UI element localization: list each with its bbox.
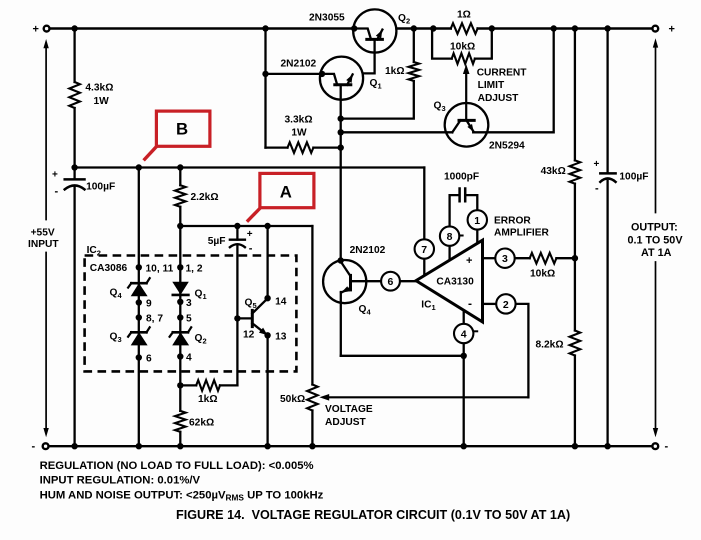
- transistor Q4 emitter: [341, 288, 350, 293]
- input arrow line lower: [45, 253, 47, 429]
- red callout box A: [260, 173, 314, 207]
- junction dot pin4 row: [461, 353, 467, 359]
- arrowhead input up: [43, 39, 48, 48]
- op-amp pin2 stub: [483, 303, 496, 305]
- transistor Q4 collector: [341, 262, 351, 277]
- svg-text:2N5294: 2N5294: [489, 141, 525, 152]
- svg-text:LIMIT: LIMIT: [478, 80, 505, 91]
- svg-text:2N2102: 2N2102: [350, 245, 386, 256]
- wire: A row corner down to 50k: [311, 226, 313, 385]
- zener Q2 (IC2): [173, 331, 188, 334]
- divider column bottom: [574, 356, 576, 447]
- resistor R 3.3k leads: [266, 146, 341, 148]
- resistor R 8.2k body: [570, 331, 581, 356]
- transistor Q3 collector: [452, 120, 460, 132]
- wire: left column bottom: [73, 187, 75, 446]
- divider column middle: [574, 184, 576, 331]
- op-amp pin 6 circle: [381, 272, 400, 291]
- svg-text:HUM AND NOISE OUTPUT: <250µVRM: HUM AND NOISE OUTPUT: <250µVRMS UP TO 10…: [40, 489, 324, 502]
- transistor Q2 2N3055 circle: [353, 9, 396, 52]
- node B row wire: [75, 166, 425, 168]
- svg-text:1000pF: 1000pF: [444, 172, 479, 183]
- op-amp pin3 stub: [483, 257, 495, 259]
- svg-text:A: A: [280, 183, 292, 202]
- transistor Q5 collector: [252, 298, 267, 313]
- svg-text:1: 1: [474, 215, 480, 227]
- svg-text:-: -: [32, 441, 36, 453]
- svg-text:AT 1A: AT 1A: [641, 247, 672, 259]
- input - terminal: [43, 443, 49, 449]
- arrowhead 50k pot wiper: [319, 394, 329, 401]
- wire: Q3 collector row to Q1 base: [341, 131, 453, 133]
- svg-text:1Ω: 1Ω: [457, 10, 471, 21]
- svg-text:ERROR: ERROR: [494, 216, 531, 227]
- svg-text:Q2: Q2: [195, 333, 207, 346]
- red callout line A: [247, 207, 261, 222]
- red callout box B: [156, 111, 210, 146]
- svg-text:+: +: [466, 255, 472, 267]
- capacitor C 100uF output column top: [606, 29, 608, 174]
- svg-text:Q3: Q3: [110, 332, 122, 345]
- svg-text:ADJUST: ADJUST: [325, 417, 367, 428]
- wire: Q3 emitter row to rail: [473, 29, 554, 133]
- pot R 10k loop right: [475, 29, 492, 59]
- junction dot Q4 collector: [338, 257, 344, 263]
- svg-text:100µF: 100µF: [86, 182, 115, 193]
- svg-text:AMPLIFIER: AMPLIFIER: [494, 228, 550, 239]
- wire: 10k to divider node: [556, 257, 575, 259]
- transistor Q4 2N2102 (error amp driver) circle: [323, 260, 366, 303]
- capacitor C 5uF plates: [230, 238, 245, 240]
- junction dots top rail: [71, 25, 77, 31]
- arrowhead 10k pot wiper: [463, 64, 470, 74]
- svg-text:+: +: [33, 24, 39, 36]
- wire: left column x75 top: [73, 29, 75, 83]
- op-amp pin7 stub: [423, 259, 425, 276]
- svg-text:CURRENT: CURRENT: [477, 68, 528, 79]
- resistor R 1k body: [409, 62, 420, 81]
- junction dot 1k row: [177, 382, 183, 388]
- svg-text:1kΩ: 1kΩ: [198, 394, 218, 405]
- svg-text:Q5: Q5: [245, 298, 257, 311]
- arrowhead Q2 emitter: [376, 30, 382, 39]
- op-amp pin 3 circle: [495, 249, 514, 268]
- svg-text:1W: 1W: [291, 128, 307, 139]
- op-amp pin1 stub: [476, 230, 478, 244]
- transistor Q3 emitter: [467, 120, 474, 131]
- svg-text:62kΩ: 62kΩ: [189, 418, 214, 429]
- capacitor C 5uF top lead: [236, 226, 238, 240]
- output - terminal: [652, 443, 658, 449]
- svg-text:-: -: [665, 441, 669, 453]
- transistor Q1 base bar: [335, 83, 351, 86]
- resistor R 1k horizontal body: [196, 380, 220, 391]
- svg-text:IC2: IC2: [87, 245, 101, 258]
- transistor Q1 collector: [322, 74, 337, 85]
- svg-text:10kΩ: 10kΩ: [450, 42, 475, 53]
- svg-text:2N3055: 2N3055: [309, 13, 345, 24]
- transistor Q5 base wire: [237, 317, 251, 319]
- wire: column x180 middle: [179, 207, 181, 411]
- wire: Q5 collector column to A row: [266, 226, 268, 298]
- transistor Q2 base lead down: [353, 41, 375, 74]
- junction dots node A row: [177, 223, 183, 229]
- input arrow line upper: [45, 45, 47, 220]
- svg-text:2N2102: 2N2102: [281, 59, 317, 70]
- svg-text:-: -: [55, 186, 59, 198]
- svg-text:50kΩ: 50kΩ: [280, 394, 305, 405]
- svg-text:10, 11: 10, 11: [146, 264, 174, 275]
- arrowhead Q5 emitter: [259, 328, 268, 336]
- svg-text:+: +: [669, 24, 675, 36]
- divider column 43k/8.2k top: [574, 29, 576, 161]
- junction dots bottom rail: [71, 443, 77, 449]
- resistor R 1ohm body: [451, 23, 478, 34]
- pot 10k wiper arrow line: [465, 70, 467, 120]
- arrowhead output up: [653, 38, 658, 47]
- output arrow line lower: [655, 262, 657, 428]
- svg-text:-: -: [595, 183, 599, 195]
- svg-text:8.2kΩ: 8.2kΩ: [536, 340, 564, 351]
- svg-text:6: 6: [388, 276, 394, 288]
- junction dot divider/10k: [572, 255, 578, 261]
- transistor Q4 base bar: [349, 275, 352, 290]
- red callout line B: [144, 145, 158, 160]
- capacitor C 100uF output column bottom: [606, 181, 608, 446]
- op-amp pin 8 circle: [440, 226, 459, 245]
- bottom rail: [49, 445, 653, 447]
- svg-text:+55V: +55V: [31, 228, 55, 239]
- transistor Q5 emitter: [252, 323, 265, 333]
- svg-text:8: 8: [447, 231, 453, 243]
- transistor Q3 2N5294 circle: [445, 103, 489, 147]
- svg-text:7: 7: [421, 244, 427, 256]
- wire: Q4 emitter row to pin4 column: [341, 355, 464, 357]
- svg-text:4.3kΩ: 4.3kΩ: [85, 83, 113, 94]
- op-amp pin8 stub: [448, 246, 450, 261]
- resistor R 2.2k body: [175, 185, 186, 207]
- svg-text:Q3: Q3: [434, 101, 446, 114]
- capacitor C 1000pF left hook (pin8): [450, 195, 459, 226]
- node A row wire: [180, 225, 312, 227]
- svg-text:CA3130: CA3130: [436, 277, 474, 288]
- svg-text:-: -: [468, 297, 472, 311]
- op-amp pin 1 circle: [468, 210, 487, 229]
- svg-text:12: 12: [243, 330, 255, 341]
- resistor R 4.3k body: [69, 82, 80, 108]
- svg-text:ADJUST: ADJUST: [478, 93, 520, 104]
- wire: column x139 (Q4/Q3 zeners): [138, 168, 140, 447]
- op-amp pin 4 circle: [454, 324, 473, 343]
- junction dots node B row: [71, 164, 77, 170]
- transistor Q1 base lead down: [340, 86, 342, 261]
- svg-text:0.1 TO 50V: 0.1 TO 50V: [628, 234, 684, 246]
- svg-text:OUTPUT:: OUTPUT:: [631, 222, 678, 234]
- wire: Q1 collector branch: [266, 73, 323, 75]
- capacitor C 1000pF right hook (pin1): [466, 195, 477, 210]
- arrowhead Q1 emitter: [346, 74, 352, 83]
- junction dots Q1 area: [262, 71, 268, 77]
- svg-text:3: 3: [186, 298, 192, 309]
- svg-text:Q4: Q4: [110, 288, 123, 301]
- resistor R 1k horizontal leads: [180, 384, 237, 386]
- resistor R 3.3k body: [288, 142, 314, 153]
- svg-text:9: 9: [146, 299, 152, 310]
- wire: pin2 right and down: [516, 304, 529, 397]
- output arrow line upper: [655, 45, 657, 213]
- resistor R 1k bottom lead to Q1 base: [341, 81, 414, 119]
- top supply rail: [50, 27, 653, 29]
- transistor Q1 2N2102 circle: [320, 57, 363, 100]
- svg-text:2.2kΩ: 2.2kΩ: [191, 192, 219, 203]
- svg-text:Q1: Q1: [370, 78, 382, 91]
- svg-text:8, 7: 8, 7: [146, 314, 163, 325]
- svg-text:2: 2: [503, 299, 509, 311]
- resistor R 62k body: [175, 411, 186, 432]
- zener Q3 (IC2): [131, 331, 146, 334]
- svg-text:-: -: [249, 242, 253, 254]
- transistor Q2 base bar: [367, 38, 383, 41]
- svg-text:13: 13: [275, 332, 287, 343]
- wire: left column mid: [73, 108, 75, 179]
- wire: 50k wiper row: [325, 396, 528, 398]
- svg-text:INPUT REGULATION: 0.01%/V: INPUT REGULATION: 0.01%/V: [40, 475, 201, 487]
- svg-text:Q1: Q1: [195, 289, 207, 302]
- svg-text:REGULATION (NO LOAD TO FULL LO: REGULATION (NO LOAD TO FULL LOAD): <0.00…: [40, 460, 314, 472]
- svg-text:14: 14: [275, 297, 287, 308]
- svg-text:5: 5: [186, 314, 192, 325]
- transistor Q5 base bar: [251, 310, 254, 326]
- op-amp U1 CA3130 triangle: [416, 240, 483, 322]
- op-amp pin4 right tick: [474, 330, 478, 332]
- capacitor C 5uF bottom lead / Q5 base column: [236, 246, 238, 386]
- svg-text:5µF: 5µF: [208, 236, 226, 247]
- svg-text:+: +: [594, 159, 600, 170]
- svg-text:4: 4: [186, 353, 192, 364]
- svg-text:1, 2: 1, 2: [186, 264, 203, 275]
- wire: column x180 bottom: [179, 432, 181, 446]
- capacitor C 100uF input plates: [65, 178, 85, 181]
- svg-text:6: 6: [146, 354, 152, 365]
- wire: pin3 to 10k: [515, 257, 530, 259]
- pot R 10k loop left: [432, 29, 452, 59]
- input + terminal: [44, 26, 50, 32]
- pot R 10k body: [452, 53, 475, 64]
- op-amp pin 2 circle: [496, 294, 515, 313]
- op-amp pin8 right tick: [460, 235, 463, 237]
- svg-text:43kΩ: 43kΩ: [541, 166, 566, 177]
- svg-text:CA3086: CA3086: [90, 263, 128, 274]
- zener Q4 (IC2): [131, 282, 146, 285]
- transistor Q2 collector: [354, 29, 371, 40]
- capacitor C 1000pF plates: [460, 189, 466, 202]
- wire: 50k to bottom rail: [311, 411, 313, 447]
- svg-text:100µF: 100µF: [619, 172, 648, 183]
- svg-text:INPUT: INPUT: [28, 239, 59, 250]
- svg-text:1kΩ: 1kΩ: [385, 66, 405, 77]
- transistor Q1 emitter: [347, 74, 352, 84]
- junction dots IC2 pins: [136, 264, 142, 270]
- svg-text:B: B: [176, 119, 188, 138]
- svg-text:4: 4: [461, 329, 467, 341]
- svg-text:IC1: IC1: [421, 300, 435, 313]
- op-amp pin4 stub: [463, 310, 465, 324]
- resistor R 43k body: [570, 160, 581, 183]
- IC2 dashed box: [85, 256, 297, 372]
- op-amp pin 7 circle: [415, 239, 434, 258]
- arrowhead Q3 emitter: [467, 124, 473, 132]
- svg-text:1W: 1W: [94, 96, 110, 107]
- svg-text:3.3kΩ: 3.3kΩ: [285, 115, 313, 126]
- wire: Q5 emitter column to bottom rail: [266, 335, 268, 446]
- diode Q1 (IC2): [173, 294, 189, 297]
- svg-text:VOLTAGE: VOLTAGE: [325, 404, 373, 415]
- output + terminal: [652, 26, 658, 32]
- transistor Q2 emitter: [377, 30, 382, 40]
- wire: pin4 column to bottom rail: [463, 343, 465, 446]
- arrowhead input down: [43, 428, 48, 437]
- svg-text:+: +: [247, 229, 253, 240]
- svg-text:3: 3: [502, 253, 508, 265]
- arrowhead Q4 emitter: [341, 286, 350, 293]
- transistor Q3 base bar: [459, 119, 474, 122]
- wire: x265.5 column (Q1 collector feed): [264, 29, 266, 148]
- svg-text:10kΩ: 10kΩ: [530, 269, 555, 280]
- svg-text:Q2: Q2: [398, 13, 410, 26]
- resistor R 10k (pin3) body: [530, 253, 557, 264]
- wire: Q4 base to pin6: [352, 280, 381, 282]
- transistor Q4 emitter lead down: [340, 292, 342, 356]
- wire: pin6 to op-amp vertex: [400, 280, 416, 282]
- resistor R 1k (Q2 b-e) top lead: [413, 29, 415, 63]
- capacitor C 100uF output plates: [600, 172, 615, 175]
- pot R 50k body: [307, 385, 318, 411]
- wire: column x180 top: [179, 168, 181, 186]
- svg-text:Q4: Q4: [359, 304, 372, 317]
- svg-text:+: +: [52, 170, 58, 181]
- svg-text:FIGURE 14. VOLTAGE REGULATOR: FIGURE 14. VOLTAGE REGULATOR CIRCUIT (0.…: [176, 508, 570, 522]
- arrowhead output down: [653, 428, 658, 437]
- wire: B row drop to pin7: [423, 168, 425, 240]
